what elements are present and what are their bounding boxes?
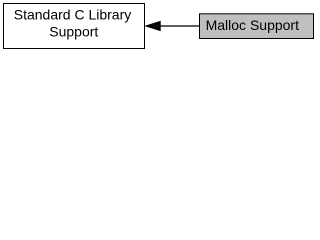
svg-text:Malloc Support: Malloc Support bbox=[206, 17, 299, 33]
svg-text:Support: Support bbox=[49, 24, 98, 40]
svg-text:Standard C Library: Standard C Library bbox=[14, 6, 132, 22]
